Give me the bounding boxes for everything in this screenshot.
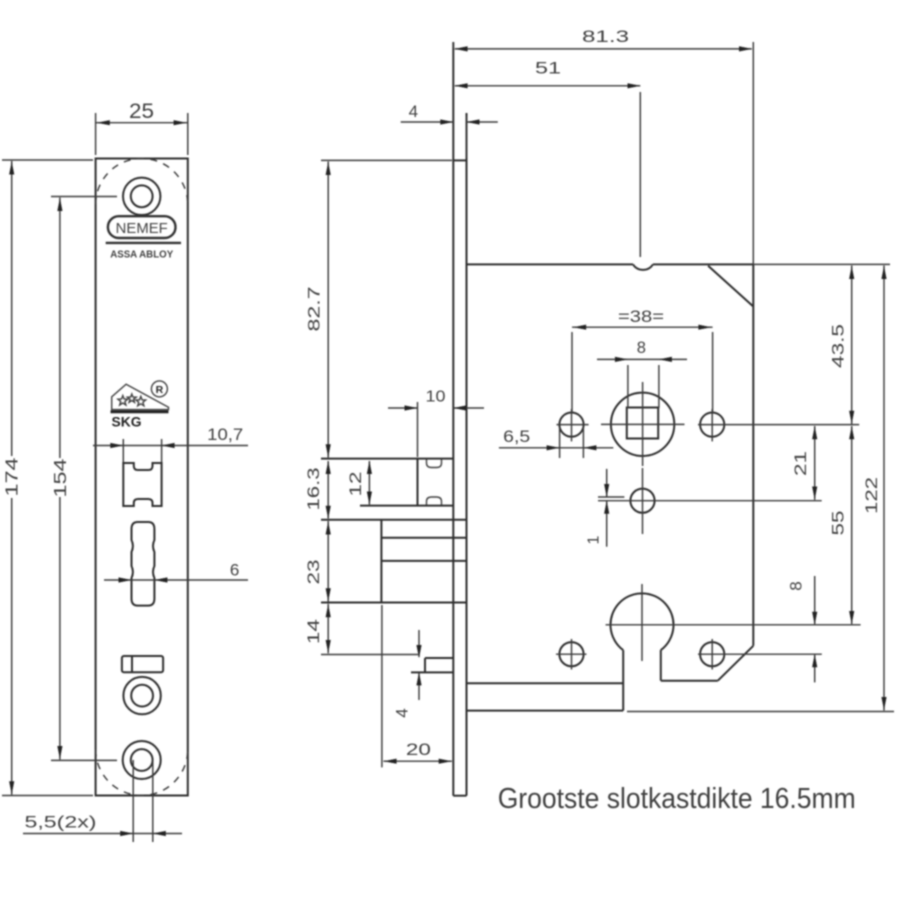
dimension 122 [862, 266, 887, 711]
svg-text:NEMEF: NEMEF [116, 221, 168, 237]
top screw hole outer circle [123, 178, 160, 215]
dimension 25 [96, 100, 188, 155]
NEMEF oval logo [108, 216, 176, 238]
svg-text:8: 8 [637, 339, 646, 357]
keyhole slot left edge [622, 650, 624, 711]
svg-text:12: 12 [346, 472, 365, 497]
bottom right screw hole [698, 639, 822, 670]
bottom right chamfer [718, 646, 754, 681]
keyhole circle [611, 593, 674, 650]
SKG star 1 [118, 396, 128, 405]
keyhole slot right edge [660, 650, 662, 681]
latch bolt side view [418, 459, 442, 506]
dimension 55 [829, 426, 855, 624]
dimension 10 [388, 389, 484, 458]
bottom left screw hole [556, 639, 587, 670]
svg-text:6: 6 [230, 561, 239, 580]
case top extension line [753, 263, 890, 265]
svg-text:=38=: =38= [618, 308, 664, 326]
svg-text:6,5: 6,5 [503, 427, 530, 446]
dashed rounding arc top of faceplate [96, 158, 188, 204]
latch bottom edge line [360, 505, 453, 507]
dimension 8 right [787, 576, 818, 682]
svg-text:23: 23 [304, 560, 323, 585]
lock case top edge [467, 263, 754, 265]
dimension 6 [104, 561, 248, 583]
dimension 5,5(2x) [23, 760, 182, 842]
registered trademark symbol [151, 381, 167, 397]
SKG text [112, 415, 142, 430]
svg-text:81.3: 81.3 [582, 27, 629, 46]
dimension 82.7 [305, 160, 453, 457]
hub circle [611, 393, 674, 456]
lock case right edge [752, 264, 754, 645]
dimension 20 [383, 740, 452, 764]
svg-text:8: 8 [787, 581, 806, 590]
latch cutout [123, 463, 161, 506]
svg-text:10,7: 10,7 [207, 425, 243, 444]
caption text [498, 783, 856, 815]
dimension 16.3 [304, 461, 331, 519]
svg-text:154: 154 [50, 458, 70, 497]
dimension 21 [791, 426, 817, 500]
case bottom extension line [627, 711, 894, 713]
small rectangular cutout [122, 656, 163, 672]
dimension 81.3 [453, 27, 753, 264]
middle hole inner circle [131, 685, 153, 707]
svg-text:ASSA ABLOY: ASSA ABLOY [110, 249, 173, 260]
dimension 8 square [597, 339, 687, 408]
case bottom right edge [661, 680, 718, 682]
dimension =38= [572, 308, 713, 412]
dimension 174 [2, 160, 94, 796]
faceplate side view [453, 42, 466, 796]
deadbolt bottom line [321, 602, 467, 604]
svg-text:R: R [156, 384, 164, 396]
svg-text:20: 20 [406, 740, 431, 759]
dimension 23 [304, 521, 331, 602]
dimension 43.5 [829, 266, 855, 425]
deadbolt top line [321, 519, 467, 521]
svg-text:122: 122 [862, 477, 881, 514]
svg-text:16.3: 16.3 [304, 468, 323, 511]
auxiliary latch pin [411, 658, 453, 672]
line under NEMEF logo [106, 242, 181, 244]
dimension 14 [304, 604, 331, 654]
ASSA ABLOY text [110, 249, 173, 260]
dimension 10,7 [93, 425, 248, 462]
1mm reference line [598, 496, 624, 498]
svg-text:25: 25 [129, 100, 154, 123]
notch in top edge [633, 264, 653, 270]
hub square follower [627, 408, 658, 439]
middle hole outer circle [123, 677, 160, 714]
dimension 51 [455, 59, 641, 258]
pin top extension line [321, 654, 418, 656]
svg-text:82.7: 82.7 [305, 287, 324, 332]
svg-text:174: 174 [2, 457, 22, 496]
svg-text:5,5(2x): 5,5(2x) [25, 813, 97, 832]
hub crosshair [601, 382, 685, 466]
svg-text:Grootste slotkastdikte 16.5mm: Grootste slotkastdikte 16.5mm [498, 783, 856, 815]
svg-text:21: 21 [791, 451, 810, 476]
SKG star 2 [127, 394, 136, 402]
dimension 154 [50, 197, 117, 761]
svg-text:43.5: 43.5 [829, 324, 848, 368]
svg-text:SKG: SKG [112, 415, 142, 430]
svg-text:4: 4 [393, 708, 412, 717]
SKG star 3 [136, 396, 146, 405]
key cutout [132, 522, 155, 606]
dashed rounding arc bottom of faceplate [96, 749, 188, 795]
svg-text:55: 55 [829, 511, 848, 536]
bottom screw hole outer circle [123, 741, 161, 779]
case bottom edge [467, 710, 624, 712]
deadbolt side view [381, 520, 466, 603]
deadbolt face extension line [381, 605, 383, 767]
SKG house outline [112, 384, 169, 409]
bottom screw hole inner circle [131, 749, 153, 771]
faceplate front view outline [96, 159, 188, 796]
dimension 12 [346, 461, 372, 505]
svg-text:14: 14 [304, 619, 323, 644]
dimension 4 faceplate [401, 102, 498, 158]
svg-text:1: 1 [586, 535, 603, 544]
dimension 4 pin [393, 630, 422, 718]
svg-text:4: 4 [409, 102, 418, 121]
top right screw hole [698, 409, 859, 441]
latch top edge line [321, 458, 453, 460]
dimension 1 [586, 469, 610, 547]
top left screw hole [557, 409, 589, 441]
small hub hole [598, 468, 822, 534]
top right chamfer line [708, 266, 753, 307]
keyhole crosshair [606, 584, 861, 661]
SKG underline [111, 410, 169, 413]
svg-text:10: 10 [426, 389, 446, 406]
case internal step line [467, 682, 624, 684]
dimension 6,5 [499, 427, 613, 458]
svg-text:51: 51 [535, 59, 561, 78]
top screw hole inner circle [131, 185, 153, 207]
